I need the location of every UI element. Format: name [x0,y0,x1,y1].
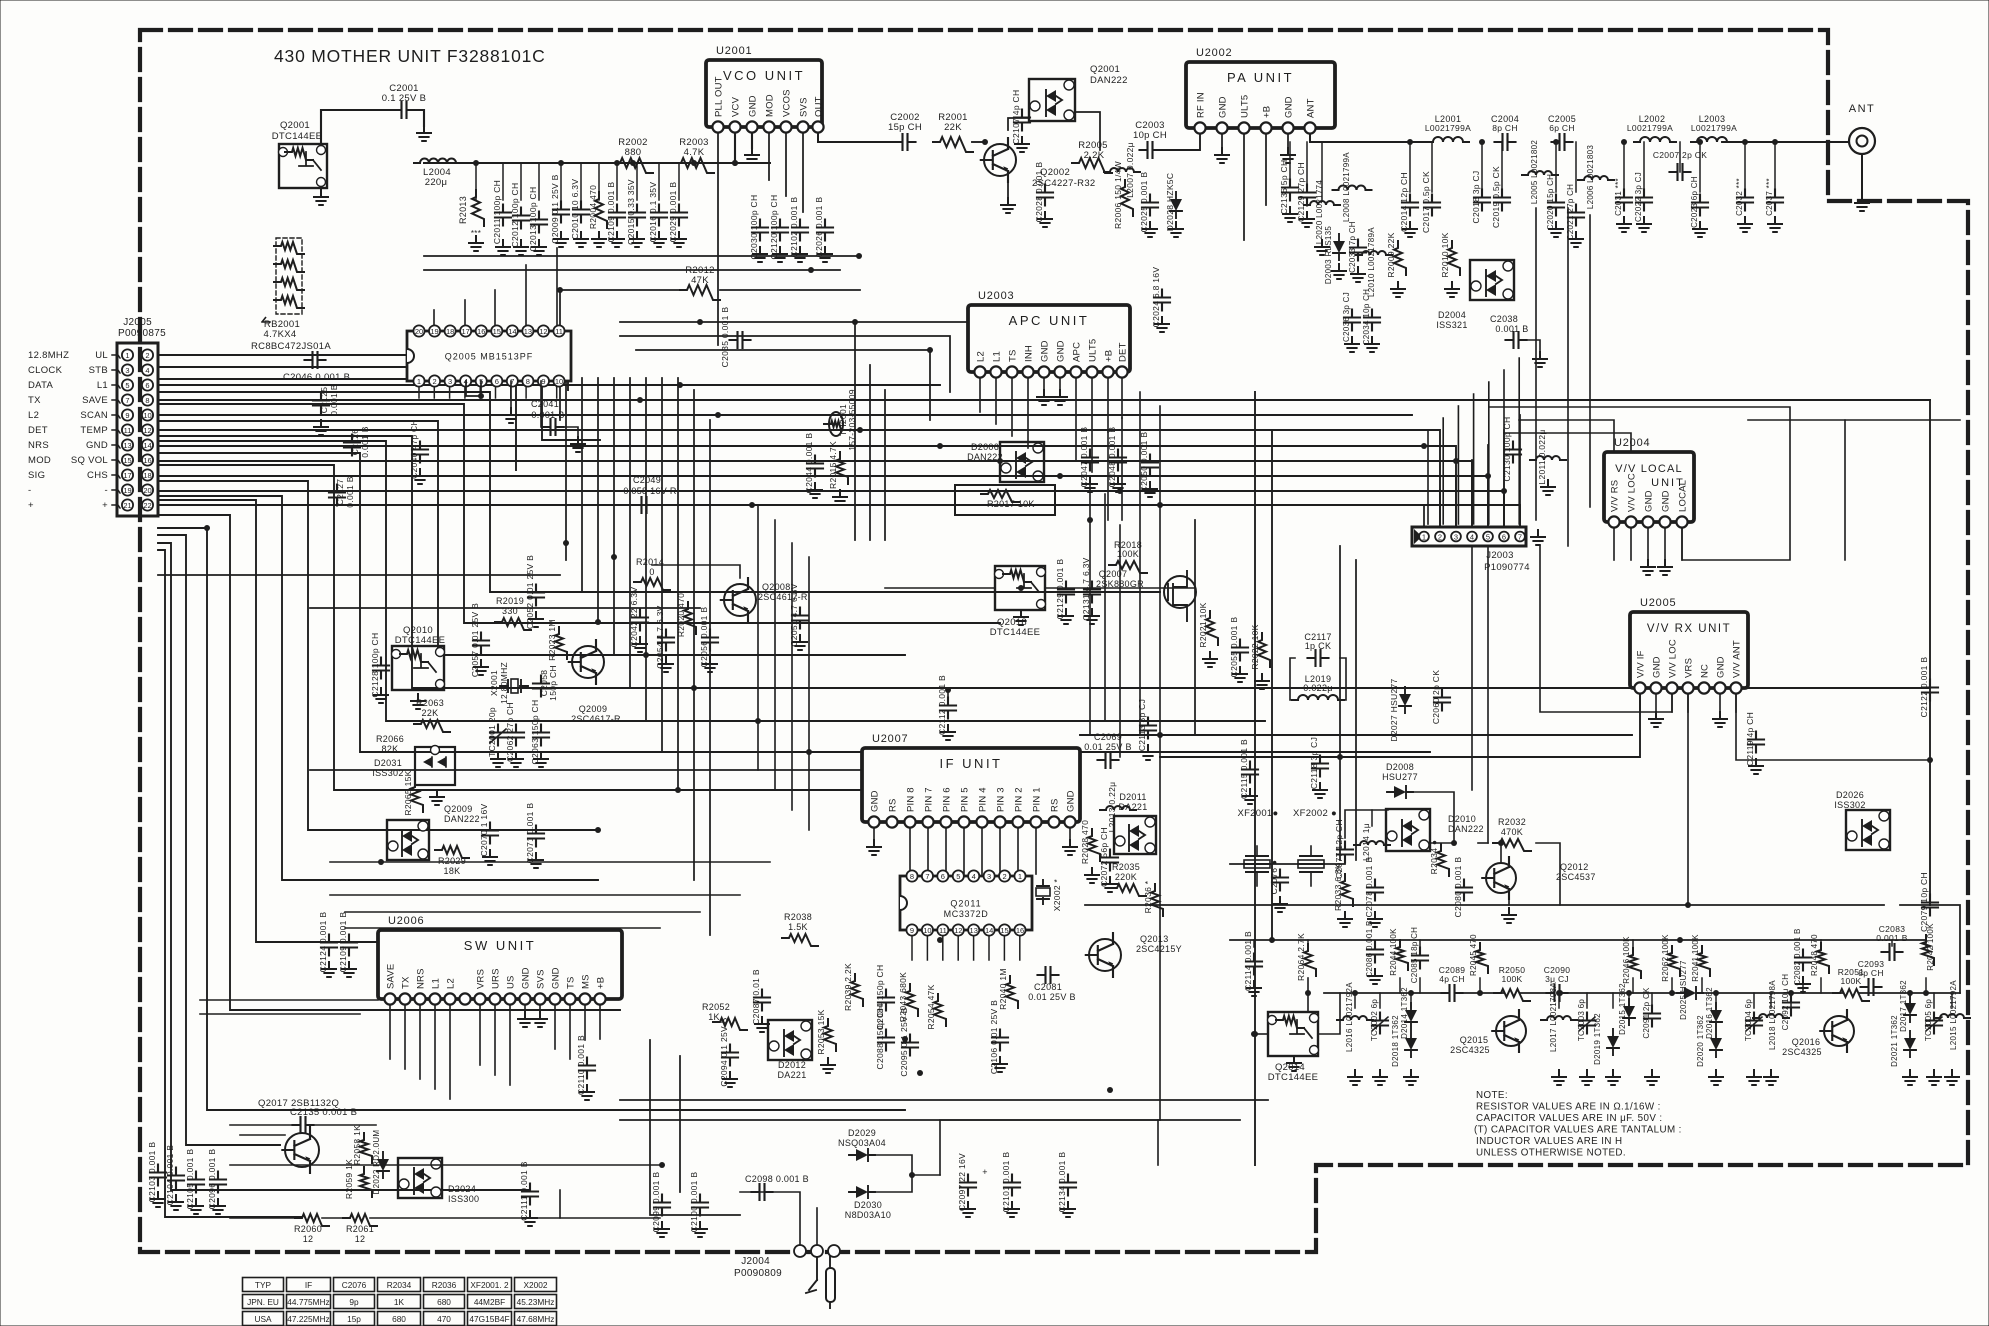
capacitor C2017 [1424,195,1440,216]
svg-text:Q2012: Q2012 [1560,862,1589,872]
capacitor C2117 1p CK [1308,650,1329,666]
diode D2022 RD2.0UM [377,1159,389,1171]
resistor network RB2001 4.7KX4 [276,238,302,314]
svg-text:44M2BF: 44M2BF [474,1297,505,1307]
svg-text:C2036 3p CJ: C2036 3p CJ [1342,292,1351,342]
svg-text:C2085 18p CH: C2085 18p CH [1410,927,1419,984]
svg-text:L2: L2 [976,351,987,362]
svg-text:11: 11 [124,426,132,435]
svg-text:C2060 2p CK: C2060 2p CK [1431,670,1441,724]
svg-text:Q2011: Q2011 [950,899,981,909]
wire C2003 to PA RF IN [1160,128,1200,150]
capacitor C2022 [1636,190,1652,211]
svg-text:R2053 15K: R2053 15K [816,1009,826,1054]
inductor L2002 [1634,137,1676,142]
svg-text:R2035: R2035 [1112,862,1140,872]
svg-text:4p CH: 4p CH [1439,974,1465,984]
svg-text:21: 21 [123,501,131,510]
capacitor C2131 [1084,582,1100,603]
trim cap TC2004 [1746,1013,1762,1034]
svg-text:C2029 0.001 B: C2029 0.001 B [668,182,678,243]
svg-text:+: + [28,500,34,511]
wire apc down bundle [1089,480,1091,735]
capacitor C2090 [1547,985,1568,1001]
svg-text:L2007 0.022μ: L2007 0.022μ [1125,142,1135,198]
svg-text:TC2005 6p: TC2005 6p [1924,999,1933,1042]
svg-text:(T) CAPACITOR VALUES ARE TANTA: (T) CAPACITOR VALUES ARE TANTALUM : [1474,1125,1682,1136]
wire long bus y400 right leg [1929,400,1931,905]
capacitor C2056 [702,630,718,651]
svg-text:C2063 150p CH: C2063 150p CH [530,700,540,765]
svg-text:DTC144EE: DTC144EE [990,627,1040,638]
svg-text:PIN 5: PIN 5 [960,787,971,812]
svg-text:220K: 220K [1115,872,1137,882]
svg-text:C2136 5p CH: C2136 5p CH [1279,160,1289,215]
inductor L2010 [1356,251,1392,255]
wire J2003 pin drops [1423,505,1425,527]
capacitor C2077 [1337,842,1353,863]
svg-text:11: 11 [555,327,563,336]
wire bundle long feed rows [158,384,940,386]
capacitor C2089 [1442,985,1463,1001]
capacitor C2126 [344,435,360,456]
svg-text:8p CH: 8p CH [1858,968,1884,978]
svg-text:ULT5: ULT5 [1088,339,1099,362]
dual diode D2006 DAN222 [1000,442,1044,482]
svg-text:GND: GND [551,967,562,989]
svg-text:C2072 56p CH: C2072 56p CH [1099,827,1109,887]
diode D2025 HSU277 [1684,987,1696,999]
capacitor C2034 [1364,310,1380,331]
svg-text:GND: GND [748,95,759,117]
diode D2027 HSU277 [1399,694,1411,706]
svg-text:Q2016: Q2016 [1792,1037,1821,1047]
inductor L2007 [1104,168,1140,172]
capacitor C2095 [902,1035,918,1056]
svg-text:R2028 470: R2028 470 [1080,820,1090,864]
svg-text:2SC4325: 2SC4325 [1782,1047,1822,1057]
resistor R2021 [1206,611,1218,645]
svg-text:MC3372D: MC3372D [944,909,989,919]
svg-text:6: 6 [1502,533,1506,542]
capacitor C2037 [1767,190,1783,211]
svg-text:C2032 ***: C2032 *** [1735,178,1744,216]
svg-text:+: + [102,500,108,511]
svg-text:R2046 100K: R2046 100K [1622,936,1631,984]
capacitor C2057 [473,633,489,654]
svg-text:C2107 4p CH: C2107 4p CH [1011,90,1021,145]
svg-text:-: - [28,485,31,496]
svg-text:3: 3 [987,872,991,881]
wire Q2002 emitter gnd [1007,181,1009,198]
svg-text:C2031 ***: C2031 *** [1614,178,1623,216]
capacitor C2052 [528,585,544,606]
svg-text:D2021 1T362: D2021 1T362 [1890,1015,1899,1067]
svg-text:C2112 0.001 B: C2112 0.001 B [937,675,947,735]
capacitor C2011 [495,205,511,226]
svg-text:C2078 0.001 B: C2078 0.001 B [1364,857,1374,918]
capacitor C2021 [1568,205,1584,226]
inductor L2011 [1530,456,1566,460]
antenna jack ANT [1849,128,1875,154]
resistor R2014 0 [634,578,670,590]
capacitor C2026 [817,220,833,241]
wire top horizontals 255 [424,255,860,257]
wire diode or join [875,1155,940,1175]
svg-text:C2057 0.01 25V B: C2057 0.01 25V B [470,603,480,677]
inductor L2013 [1100,806,1136,810]
svg-text:R2061: R2061 [346,1224,374,1234]
resistor R2058 1K [360,1133,372,1163]
svg-text:C2013 100p CH: C2013 100p CH [528,187,538,252]
svg-text:0.001 B: 0.001 B [531,410,564,420]
capacitor C2106 [992,1030,1008,1051]
svg-text:6p CH: 6p CH [1549,123,1575,133]
wire right edge link [1748,419,1960,421]
svg-text:TC2002 6p: TC2002 6p [1370,999,1379,1042]
svg-text:TS: TS [1008,349,1019,362]
V/V local unit U2004 [1604,452,1694,522]
svg-text:C2080 0.001 B: C2080 0.001 B [1453,857,1463,918]
svg-text:150p CH: 150p CH [548,665,558,701]
svg-text:C2096 0.001 B: C2096 0.001 B [207,1149,217,1210]
svg-text:C2109 0.001 B: C2109 0.001 B [338,912,348,973]
svg-text:C2038: C2038 [1490,314,1518,324]
svg-text:C2017 0.5p CK: C2017 0.5p CK [1421,171,1431,233]
svg-text:CLOCK: CLOCK [28,365,63,376]
svg-text:X2002 *: X2002 * [1052,878,1062,911]
resistor R2061 12 [343,1214,377,1226]
svg-text:C2106 0.01 25V B: C2106 0.01 25V B [989,1000,999,1074]
wire APC pins down [979,372,981,412]
resistor R2029 18K [435,846,469,858]
capacitor C2063 [533,725,549,746]
svg-text:R2040 1M: R2040 1M [998,968,1008,1010]
resistor R2041 100K [1698,946,1710,976]
svg-text:GND: GND [1066,790,1077,812]
svg-text:APC UNIT: APC UNIT [1009,313,1090,328]
transistor Q2012 2SC4537 [1486,863,1516,893]
svg-text:20: 20 [143,486,151,495]
svg-text:SW UNIT: SW UNIT [464,938,536,953]
wire bottom centre verticals [650,1040,740,1215]
capacitor C2129b [1058,582,1074,603]
svg-text:2SC4325: 2SC4325 [1450,1045,1490,1055]
svg-text:C2071 0.001 B: C2071 0.001 B [525,803,535,864]
svg-text:3: 3 [1454,533,1458,542]
wire chain to ANT [1722,141,1849,143]
wire Q2008 collector [652,565,740,578]
svg-text:18: 18 [143,471,151,480]
svg-text:12.8MHZ: 12.8MHZ [28,350,69,361]
wire IF gnd pins [873,822,875,840]
svg-text:44.775MHz: 44.775MHz [287,1297,329,1307]
capacitor C2118 [1312,756,1328,777]
transistor Q2016 2SC4325 [1824,1016,1854,1046]
svg-text:MOD: MOD [28,455,51,466]
resistor R2004 [595,192,607,228]
svg-text:C2113 3p CJ: C2113 3p CJ [1137,699,1147,751]
svg-text:C2103 0.001 B: C2103 0.001 B [147,1142,157,1203]
svg-text:C2115 0.001 B: C2115 0.001 B [1239,739,1249,799]
svg-text:L2: L2 [28,410,39,421]
svg-text:R2010 10K: R2010 10K [1440,232,1450,277]
svg-text:R2015 4.7K: R2015 4.7K [828,441,838,489]
resistor R2003 [674,158,714,173]
svg-text:D2012: D2012 [778,1060,806,1070]
svg-text:VRS: VRS [476,969,487,989]
crystal X2001 [500,685,528,687]
wire U2005 pins down [1639,688,1641,712]
capacitor C2103 [150,1165,166,1186]
svg-text:R2036: R2036 [432,1280,457,1290]
svg-text:J2003: J2003 [1486,550,1513,561]
svg-text:DET: DET [28,425,48,436]
svg-text:D2008: D2008 [1386,762,1414,772]
svg-text:GND: GND [870,790,881,812]
svg-text:L1: L1 [431,978,442,989]
svg-text:UL: UL [95,350,108,361]
wire PA ULT5 down [1243,128,1245,240]
svg-text:680: 680 [392,1314,406,1324]
diode D2016 1T362 [1710,1010,1722,1022]
svg-text:C2014 12p CH: C2014 12p CH [1399,172,1409,232]
svg-text:Q2002: Q2002 [1040,167,1070,178]
diode D2029 NSQ03A04 [856,1149,868,1161]
svg-text:47.68MHz: 47.68MHz [517,1314,555,1324]
resistor R2033 6.8K [1341,874,1353,906]
capacitor C2014 [1402,195,1418,216]
svg-text:C2026 0.001 B: C2026 0.001 B [814,197,824,258]
capacitor C2028 [1037,185,1053,206]
svg-text:PIN 1: PIN 1 [1032,787,1043,812]
capacitor C2112 [940,698,956,719]
svg-text:SAVE: SAVE [386,964,397,989]
capacitor C2104 [168,1168,184,1189]
svg-text:L2006 L0021803: L2006 L0021803 [1586,145,1595,210]
resistor R2054 47K [934,994,946,1026]
svg-text:0.001 B: 0.001 B [360,426,370,457]
svg-text:C2041: C2041 [531,399,559,409]
svg-text:R2017 10K: R2017 10K [987,499,1035,509]
svg-text:2SC4617-R: 2SC4617-R [571,714,621,724]
capacitor C2032 [1737,190,1753,211]
svg-text:R2009 22K: R2009 22K [1386,232,1396,277]
svg-text:INDUCTOR VALUES ARE IN H: INDUCTOR VALUES ARE IN H [1476,1136,1622,1147]
svg-text:5: 5 [125,381,129,390]
svg-text:C2095 0.1 25V B: C2095 0.1 25V B [899,1007,909,1076]
diode D2008 HSU277 [1394,786,1406,798]
dual diode D2024 ISS300 [398,1158,442,1198]
VCO unit U2001 [706,60,822,127]
wire trap verticals right [1535,208,1537,520]
dual diode Q2001 DAN222 [1029,79,1075,121]
wire XF row [1230,863,1244,865]
svg-text:C2098 0.001 B: C2098 0.001 B [745,1174,809,1184]
svg-text:V/V LOCAL: V/V LOCAL [1615,463,1683,475]
capacitor C2109b [341,935,357,956]
svg-text:X2002: X2002 [524,1280,548,1290]
svg-text:PIN 4: PIN 4 [978,787,989,812]
resistor R2018 100K [1109,561,1147,573]
svg-text:HSU277: HSU277 [1382,772,1418,782]
wire DIP risers to cluster [418,386,420,398]
capacitor C2129 [1299,185,1315,206]
svg-text:C2102 0.001 B: C2102 0.001 B [789,197,799,258]
svg-text:8: 8 [910,872,914,881]
capacitor C2060 2p CK [1434,690,1450,711]
wire R2012 run [560,289,680,291]
resistor R2053 15K [824,1019,836,1051]
resistor R2052 1K [713,1018,747,1030]
svg-text:ANT: ANT [1306,98,1317,118]
resistor R2010 [1448,241,1460,275]
svg-text:16: 16 [1016,926,1024,935]
svg-text:47.225MHz: 47.225MHz [287,1314,329,1324]
capacitor C2113 [1140,718,1156,739]
svg-text:R2029: R2029 [438,856,466,866]
inductor L2001 [1427,137,1469,142]
svg-text:6: 6 [145,381,149,390]
svg-text:SCAN: SCAN [80,410,108,421]
dual diode D2004 ISS321 [1470,260,1514,300]
svg-text:NC: NC [1700,664,1711,678]
svg-text:C2035 0.001 B: C2035 0.001 B [720,307,730,368]
svg-text:8: 8 [526,377,530,386]
capacitor C2042 [632,610,648,631]
svg-text:4: 4 [1470,533,1474,542]
svg-text:17: 17 [123,471,131,480]
svg-text:Q2001: Q2001 [1090,64,1120,75]
svg-text:D2006: D2006 [971,442,999,452]
svg-text:22K: 22K [422,708,439,718]
capacitor C2062 [508,725,524,746]
svg-text:R2066: R2066 [376,734,404,744]
resistor R2042 100K [1922,935,1934,965]
svg-text:R2004 470: R2004 470 [588,185,598,229]
capacitor C2036 [1344,310,1360,331]
ceramic filter XF2001 [1244,860,1270,868]
svg-text:D2017 1T362: D2017 1T362 [1899,980,1908,1032]
svg-text:C2124 0.001 B: C2124 0.001 B [318,912,328,973]
resistor R2048 470 [1817,943,1829,973]
wire SW pins down [389,999,391,1059]
svg-text:470K: 470K [1501,827,1523,837]
svg-text:2SC4617-R: 2SC4617-R [758,592,808,602]
svg-text:C2088 150p CH: C2088 150p CH [875,1005,885,1070]
svg-text:GND: GND [1284,96,1295,118]
capacitor C2135 [293,1117,314,1133]
svg-text:N8D03A10: N8D03A10 [845,1210,891,1220]
svg-text:DATA: DATA [28,380,53,391]
svg-text:18K: 18K [444,866,461,876]
trim cap TC2003 [1579,1013,1595,1034]
svg-text:R2062 100K: R2062 100K [1661,934,1670,982]
capacitor C2038 [1506,332,1527,348]
svg-text:L2011 0.022μ: L2011 0.022μ [1537,429,1547,484]
resistor R2036v [1151,884,1163,916]
svg-text:100K: 100K [1501,974,1522,984]
svg-text:Q2005 MB1513PF: Q2005 MB1513PF [445,352,534,362]
transistor Q2010 DTC144EE [392,646,444,690]
dual diode D2012 DA221 [768,1020,812,1060]
trim cap TC2002 [1372,1013,1388,1034]
wire Q2011 bottom pins [911,932,913,960]
capacitor C2093 [1861,979,1882,995]
svg-text:-: - [105,485,108,496]
svg-text:PIN 2: PIN 2 [1014,787,1025,812]
svg-text:GND: GND [1716,656,1727,678]
resistor R2065 15K [411,780,423,812]
resistor R2062 100K [1668,946,1680,976]
capacitor C2029 [671,205,687,226]
svg-text:R2038: R2038 [784,912,812,922]
svg-text:C2120 100p CH: C2120 100p CH [769,195,779,260]
svg-text:Q2001: Q2001 [280,120,310,131]
svg-text:R2023 1M: R2023 1M [547,619,557,661]
svg-text:2SC4215Y: 2SC4215Y [1136,944,1182,954]
svg-text:C2015 0.33 35V: C2015 0.33 35V [626,179,636,245]
diode D2028 HZK5C [1170,199,1182,211]
wire central verticals [565,378,567,560]
diode D2014 1T362 [1405,1010,1417,1022]
svg-text:C2044 0.001 B: C2044 0.001 B [804,433,814,494]
capacitor C2044 [807,456,823,477]
inductor L2006 [1578,176,1614,180]
svg-text:TC2003 6p: TC2003 6p [1577,999,1586,1042]
svg-text:C2030 100p CH: C2030 100p CH [749,195,759,260]
svg-text:13: 13 [524,327,532,336]
svg-text:TX: TX [401,976,412,989]
wire VCO MOD pin [768,127,770,180]
svg-text:DTC144EE: DTC144EE [395,635,445,646]
svg-text:0: 0 [649,567,654,577]
svg-text:C2086 0.001 B: C2086 0.001 B [1365,920,1374,977]
svg-text:0.1 25V B: 0.1 25V B [382,93,426,104]
wire VCO OUT pin [818,127,880,142]
svg-text:DA221: DA221 [1118,802,1147,812]
PLL IC Q2005 MB1513PF [407,331,571,381]
svg-text:1: 1 [1018,872,1022,881]
svg-text:MOD: MOD [765,94,776,117]
svg-text:880: 880 [625,147,642,158]
dual diode D2011 DA221 [1114,816,1156,854]
svg-text:D2031: D2031 [374,758,402,768]
svg-text:D2004: D2004 [1438,310,1466,320]
svg-text:ULT5: ULT5 [1240,95,1251,118]
svg-text:C2135 0.001 B: C2135 0.001 B [290,1107,357,1118]
svg-text:5: 5 [956,872,960,881]
svg-text:1p CK: 1p CK [1305,641,1332,651]
svg-text:C2111 0.001 B: C2111 0.001 B [519,1161,529,1220]
wire long bus y757 [1160,688,1640,757]
svg-text:C2092 10μ CH: C2092 10μ CH [1781,974,1790,1031]
resistor R2013 [472,190,484,226]
wire U2004 riser links [1519,420,1614,522]
capacitor C2009 [553,202,569,223]
wire PA +B down [1265,128,1267,205]
capacitor C2109 [609,205,625,226]
trim cap TC2005 [1926,1013,1942,1034]
svg-text:+B: +B [596,977,607,989]
svg-text:470: 470 [437,1314,451,1324]
svg-text:RF IN: RF IN [1196,92,1207,118]
capacitor C2130 [1505,442,1521,463]
svg-text:C2011 100p CH: C2011 100p CH [492,180,502,244]
capacitor C2007 [1670,164,1691,180]
ceramic filter XF2002 [1298,860,1324,868]
svg-text:J2005: J2005 [123,317,152,328]
